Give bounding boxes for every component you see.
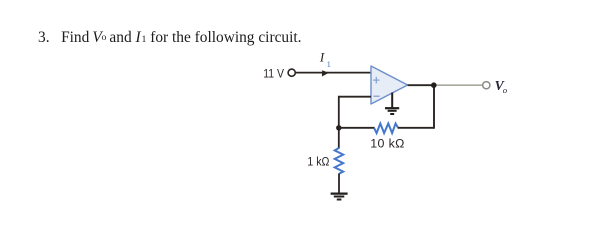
ground: bottom	[331, 194, 348, 200]
resistor 1 kOhm	[335, 148, 344, 174]
svg-text:11 V: 11 V	[263, 67, 285, 81]
wire: 1 kOhm to ground	[338, 174, 340, 194]
wire: inverting input horizontal segment	[339, 96, 371, 98]
wire: op-amp output	[408, 84, 434, 86]
svg-text:10 kΩ: 10 kΩ	[370, 136, 404, 150]
current arrow I1	[322, 70, 329, 76]
wire: feedback right vertical segment	[433, 85, 435, 129]
svg-text:1 kΩ: 1 kΩ	[307, 154, 329, 168]
wire: left vertical segment to feedback node	[338, 96, 340, 149]
svg-text:I: I	[319, 50, 325, 65]
terminal Vo	[483, 82, 490, 89]
svg-text:o: o	[503, 85, 508, 95]
terminal: input source node	[288, 69, 295, 76]
wire: source terminal to op-amp noninverting input	[296, 72, 371, 74]
op-amp U1	[371, 66, 408, 104]
wire: output to Vo terminal (gray)	[437, 84, 483, 86]
svg-text:3. Find Vo and I1 for the fo: 3. Find Vo and I1 for the following circ…	[38, 29, 302, 46]
wire: feedback bottom right segment	[398, 127, 434, 129]
ground: op-amp reference	[385, 93, 399, 115]
svg-text:1: 1	[327, 59, 331, 69]
node B: output junction	[431, 82, 437, 88]
wire: feedback bottom left segment	[339, 127, 375, 129]
node A: feedback junction	[336, 125, 341, 130]
resistor 10 kOhm	[374, 124, 398, 134]
